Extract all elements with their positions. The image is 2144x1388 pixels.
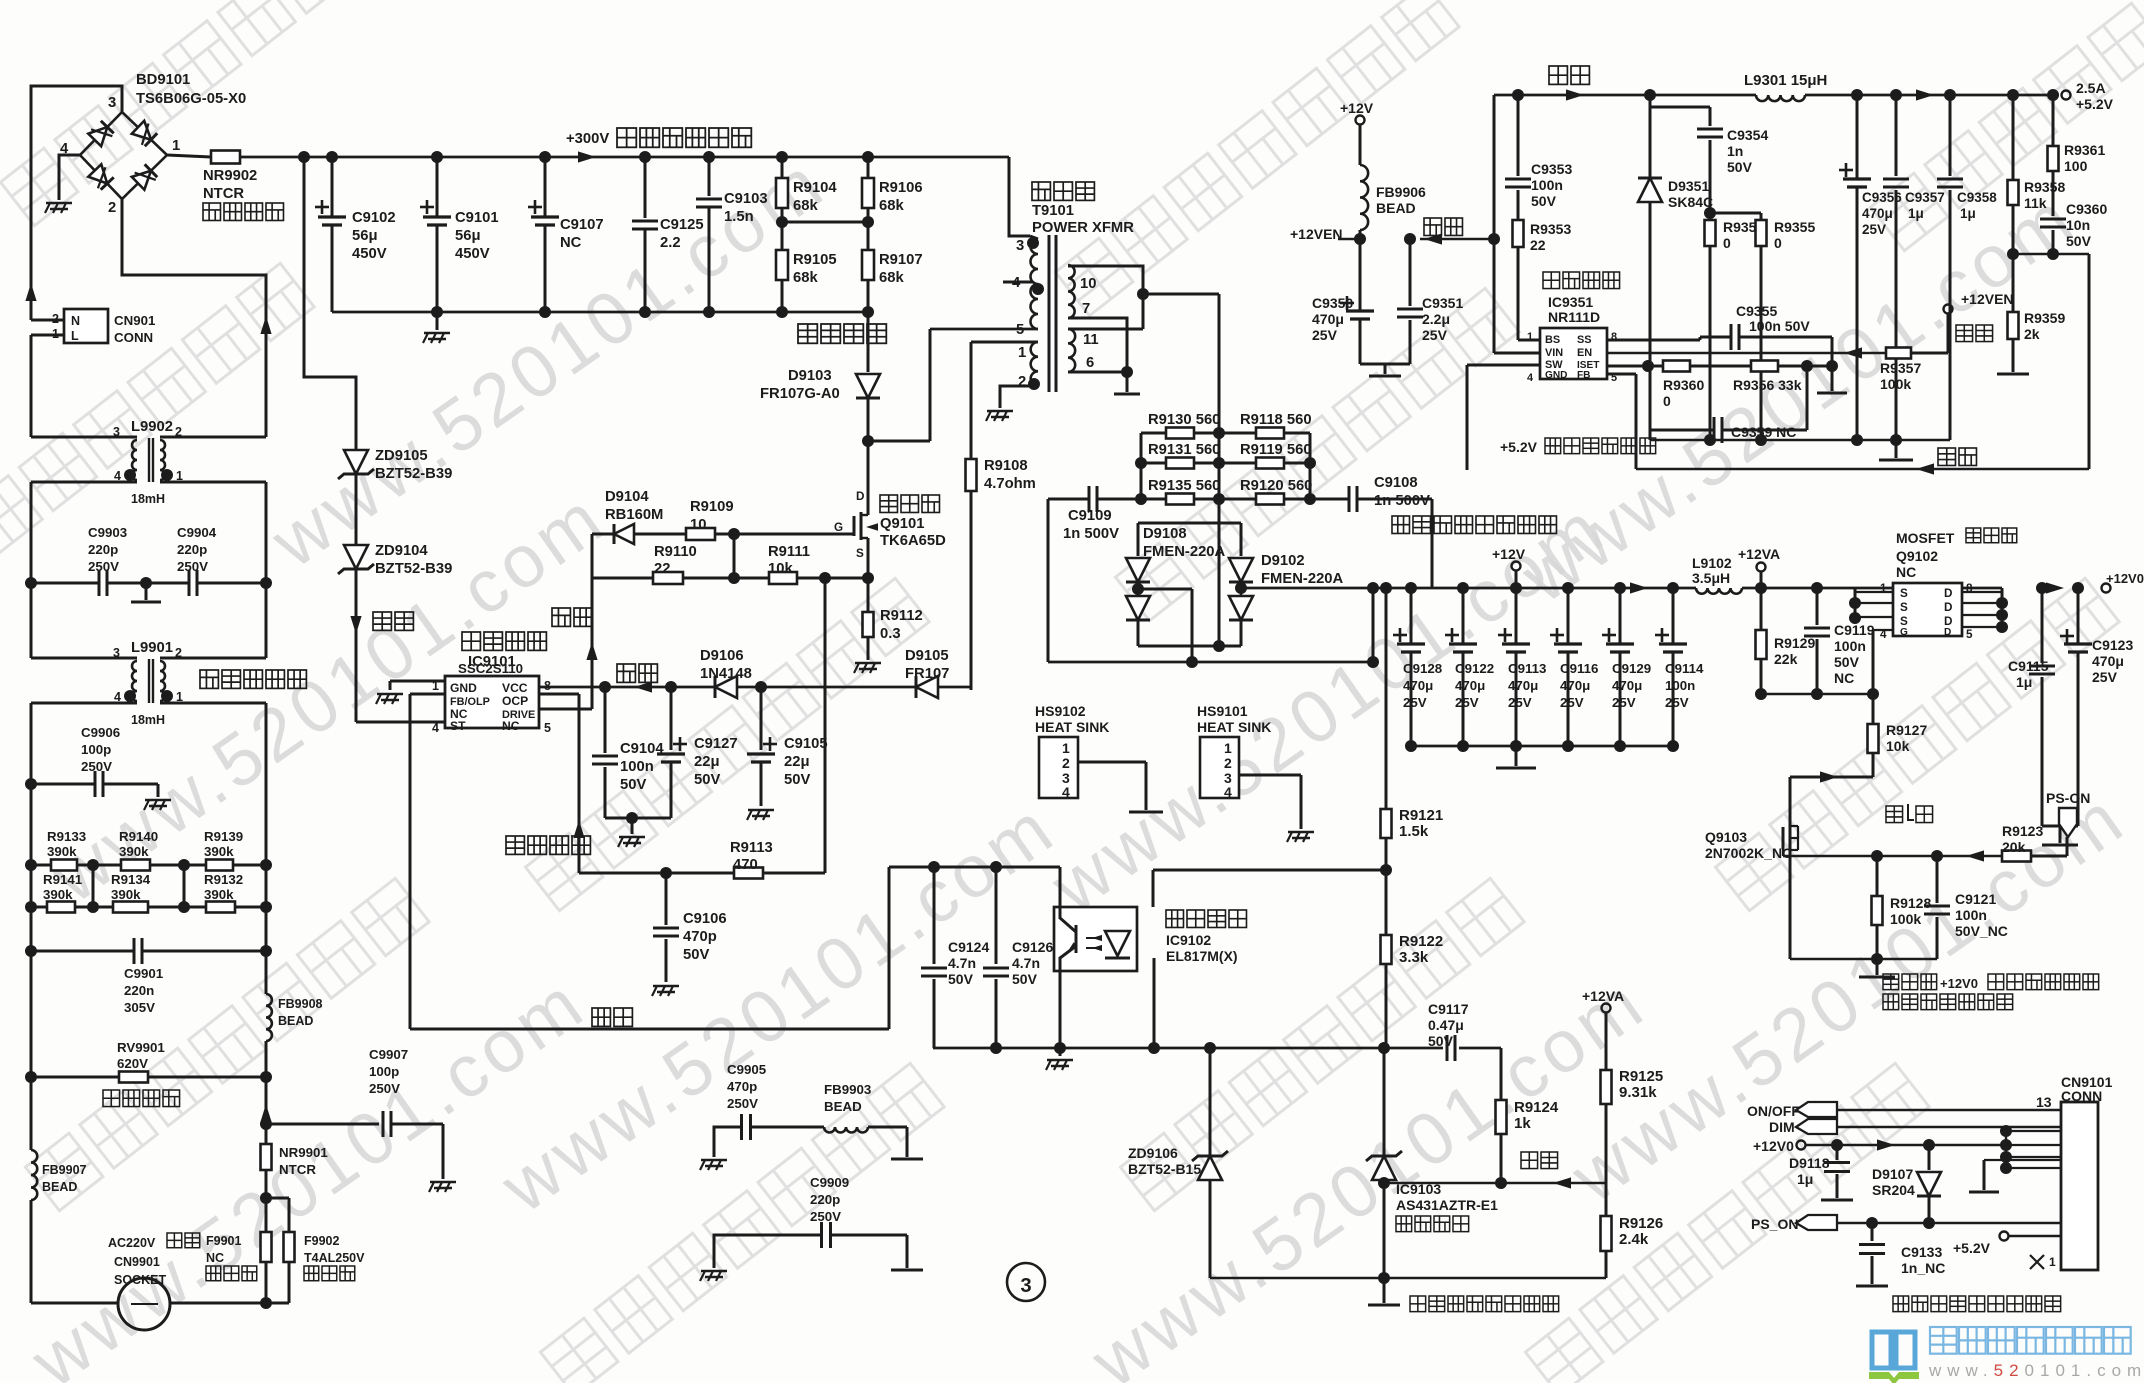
svg-text:R9133: R9133 <box>47 829 86 844</box>
svg-text:C9119: C9119 <box>1834 622 1875 638</box>
capacitor C9101 <box>420 157 499 312</box>
svg-text:2k: 2k <box>2024 326 2040 342</box>
bridge rectifier BD9101 <box>60 95 180 216</box>
svg-text:390k: 390k <box>43 887 73 902</box>
+5.2V terminal at connector <box>1953 1232 2061 1257</box>
MOSFET Q9103 2N7002K <box>1705 818 1798 959</box>
capacitor C9128 <box>1393 588 1442 746</box>
optocoupler IC9102 EL817 <box>1054 907 1137 971</box>
capacitor C9119 <box>1804 588 1875 694</box>
svg-text:D9105: D9105 <box>905 648 949 664</box>
svg-text:1N4148: 1N4148 <box>700 666 752 682</box>
ground at C9350/C9351 <box>1360 364 1410 376</box>
rectifier bottom rail <box>1048 582 1379 668</box>
ISET ground <box>1817 366 1847 393</box>
svg-text:470p: 470p <box>683 929 717 945</box>
site logo book icon <box>1869 1332 1919 1385</box>
svg-text:1.5k: 1.5k <box>1399 823 1429 840</box>
svg-text:D: D <box>856 490 864 503</box>
C9104/C9127 ground <box>605 812 671 847</box>
capacitor C9106 <box>653 873 727 982</box>
wire to IC9101 ST pin <box>356 721 445 724</box>
svg-text:BEAD: BEAD <box>824 1099 862 1114</box>
svg-text:G: G <box>834 521 843 534</box>
svg-text:13: 13 <box>2036 1094 2052 1110</box>
svg-text:HS9102: HS9102 <box>1035 703 1086 719</box>
resistor R9133 <box>31 829 93 871</box>
IC9351 VIN wire <box>1488 95 1540 353</box>
resistor R9130 <box>1141 412 1220 439</box>
svg-text:3: 3 <box>1016 238 1024 254</box>
svg-text:FB9908: FB9908 <box>278 997 323 1011</box>
no-connect X mark <box>2030 1255 2056 1269</box>
svg-text:1: 1 <box>1018 345 1026 361</box>
svg-text:100n: 100n <box>1665 678 1695 693</box>
svg-text:R9118 560: R9118 560 <box>1240 412 1312 428</box>
svg-text:4.7n: 4.7n <box>948 955 976 971</box>
IC IC9351 NR111D <box>1527 328 1617 384</box>
svg-text:IC9102: IC9102 <box>1166 932 1211 948</box>
svg-text:C9351: C9351 <box>1422 295 1463 311</box>
svg-text:BZT52-B15: BZT52-B15 <box>1128 1161 1201 1177</box>
transformer T9101 <box>930 235 1149 408</box>
IC9101 DRIVE wire 激励 <box>539 534 598 709</box>
svg-text:50V: 50V <box>948 971 974 987</box>
svg-text:C9354: C9354 <box>1727 127 1768 143</box>
svg-text:1n: 1n <box>1727 143 1743 159</box>
svg-text:PS_ON: PS_ON <box>1751 1216 1798 1232</box>
svg-text:DIM: DIM <box>1769 1119 1795 1135</box>
svg-text:HEAT SINK: HEAT SINK <box>1197 719 1271 735</box>
svg-text:FMEN-220A: FMEN-220A <box>1261 571 1344 587</box>
svg-text:1μ: 1μ <box>2016 674 2032 690</box>
svg-text:FR107: FR107 <box>905 666 949 682</box>
svg-text:2.2μ: 2.2μ <box>1422 311 1450 327</box>
svg-text:C9117: C9117 <box>1428 1001 1469 1017</box>
bead FB9903 <box>824 1082 923 1159</box>
svg-text:R9110: R9110 <box>654 544 697 560</box>
svg-text:C9909: C9909 <box>810 1175 849 1190</box>
svg-text:R9111: R9111 <box>768 544 810 560</box>
svg-text:10k: 10k <box>1886 738 1910 754</box>
capacitor C9905 filter <box>700 1062 824 1170</box>
opto top bus <box>889 861 1060 907</box>
svg-text:C9115: C9115 <box>2008 658 2049 674</box>
svg-text:C9127: C9127 <box>694 736 738 752</box>
IC9351 SS wire + capacitor C9355 <box>1607 303 1832 366</box>
svg-text:470μ: 470μ <box>1455 678 1485 693</box>
svg-text:R9139: R9139 <box>204 829 243 844</box>
resistor R9353 <box>1513 220 1572 340</box>
svg-text:S: S <box>1900 601 1908 614</box>
svg-text:C9121: C9121 <box>1955 891 1996 907</box>
svg-text:0: 0 <box>1663 393 1671 409</box>
capacitor C9351 <box>1397 233 1463 364</box>
svg-text:R9126: R9126 <box>1619 1215 1663 1232</box>
svg-text:+5.2V: +5.2V <box>2076 96 2114 112</box>
svg-text:C9126: C9126 <box>1012 939 1053 955</box>
IC9351 ISET row R9360 R9356 <box>1607 360 1838 409</box>
svg-text:EL817M(X): EL817M(X) <box>1166 948 1238 964</box>
ground at filter rail <box>423 312 450 343</box>
svg-text:R9355: R9355 <box>1774 219 1815 235</box>
svg-text:C9114: C9114 <box>1665 661 1704 676</box>
cap bank bottom rail <box>1405 740 1679 752</box>
svg-text:HS9101: HS9101 <box>1197 703 1248 719</box>
label 开关管 Q9101 TK6A65D <box>880 495 946 549</box>
svg-text:R9141: R9141 <box>43 872 83 887</box>
svg-text:R9353: R9353 <box>1530 221 1571 237</box>
svg-text:6: 6 <box>1086 355 1094 371</box>
label 次级整流滤波电路 <box>1392 516 1409 533</box>
svg-text:470μ: 470μ <box>2092 653 2124 669</box>
snubber return wire <box>862 329 930 447</box>
ground at C9106 <box>653 985 679 988</box>
capacitor C9357 <box>1883 95 1945 446</box>
capacitor C9354 <box>1650 107 1768 213</box>
svg-text:2.2: 2.2 <box>660 235 681 251</box>
+12VEN wire into supply node <box>1290 226 1360 242</box>
svg-text:R9119 560: R9119 560 <box>1240 442 1312 458</box>
svg-text:50V: 50V <box>1834 654 1860 670</box>
svg-text:NC: NC <box>206 1251 224 1265</box>
label 稳压光耦 IC9102 EL817M(X) <box>1166 910 1246 964</box>
resistor R9126 <box>1601 1183 1664 1278</box>
circled 3 page number <box>1007 1263 1045 1301</box>
svg-text:C9122: C9122 <box>1455 661 1494 676</box>
resistor R9131 <box>1141 442 1220 469</box>
svg-text:+12V: +12V <box>1492 546 1526 562</box>
resistor R9109 <box>634 499 854 540</box>
svg-text:C9124: C9124 <box>948 939 989 955</box>
svg-text:68k: 68k <box>793 270 818 286</box>
capacitor C9115 <box>2008 582 2055 826</box>
capacitor C9360 <box>2040 201 2107 254</box>
svg-text:2: 2 <box>1062 755 1070 771</box>
svg-text:100: 100 <box>2064 158 2088 174</box>
capacitor C9358 <box>1937 95 1997 440</box>
svg-text:+12VEN: +12VEN <box>1290 226 1343 242</box>
svg-text:T4AL250V: T4AL250V <box>304 1251 365 1265</box>
svg-text:R9120 560: R9120 560 <box>1240 478 1312 494</box>
svg-text:C9108: C9108 <box>1374 475 1418 491</box>
svg-text:SS: SS <box>1577 334 1592 346</box>
svg-text:0: 0 <box>1774 235 1782 251</box>
+12VA terminal <box>1738 546 1780 588</box>
svg-text:100p: 100p <box>81 742 111 757</box>
svg-text:R9135 560: R9135 560 <box>1148 478 1220 494</box>
ground at opto emitter <box>1046 971 1073 1070</box>
svg-text:NC: NC <box>502 719 520 733</box>
wire bridge pin3 to CN901 N <box>31 86 122 320</box>
svg-text:1.5n: 1.5n <box>724 209 754 225</box>
resistor R9358 <box>2008 95 2066 254</box>
svg-text:25V: 25V <box>1560 695 1584 710</box>
diode D9351 SK84C <box>1638 95 1713 440</box>
svg-text:R9128: R9128 <box>1890 895 1931 911</box>
svg-text:250V: 250V <box>810 1209 841 1224</box>
ground at R9359 <box>1997 373 2029 376</box>
resistor R9124 <box>1496 1048 1559 1183</box>
svg-text:POWER XFMR: POWER XFMR <box>1032 220 1134 236</box>
label 市电整流滤波 <box>617 128 636 147</box>
svg-text:IC9351: IC9351 <box>1548 294 1593 310</box>
IC IC9101 SSC2S110 <box>432 676 551 735</box>
svg-text:22: 22 <box>1530 237 1546 253</box>
svg-text:C9105: C9105 <box>784 736 828 752</box>
capacitor C9105 <box>747 687 828 806</box>
capacitor C9353 <box>1505 95 1572 220</box>
svg-text:L9301 15μH: L9301 15μH <box>1744 72 1827 89</box>
svg-text:C9106: C9106 <box>683 911 727 927</box>
svg-text:+12VA: +12VA <box>1738 546 1780 562</box>
svg-text:390k: 390k <box>47 844 77 859</box>
svg-text:11: 11 <box>1083 332 1099 348</box>
svg-text:C9357: C9357 <box>1905 190 1945 205</box>
svg-text:1n 500V: 1n 500V <box>1374 493 1430 509</box>
label 变压器 T9101 POWER XFMR <box>1032 182 1134 236</box>
PS-ON connector pin <box>2046 790 2090 837</box>
svg-text:R9140: R9140 <box>119 829 158 844</box>
svg-text:2: 2 <box>1018 374 1026 390</box>
svg-text:RV9901: RV9901 <box>117 1040 165 1055</box>
svg-text:D: D <box>1944 627 1951 638</box>
svg-text:390k: 390k <box>204 887 234 902</box>
svg-text:56μ: 56μ <box>455 228 481 244</box>
svg-text:+5.2V: +5.2V <box>1500 439 1538 455</box>
svg-text:C9359 NC: C9359 NC <box>1731 424 1796 440</box>
svg-text:Q9101: Q9101 <box>880 516 924 532</box>
diode D9106 <box>700 648 752 698</box>
heat sink HS9102 <box>1035 703 1163 812</box>
resistor R9104 <box>776 157 837 222</box>
svg-text:4: 4 <box>1224 784 1232 800</box>
svg-text:2: 2 <box>1224 755 1232 771</box>
svg-text:R9356 33k: R9356 33k <box>1733 377 1802 393</box>
svg-text:305V: 305V <box>124 1000 155 1015</box>
wire bridge pin2 to L9902 pin2 <box>122 199 266 437</box>
svg-text:C9358: C9358 <box>1957 190 1997 205</box>
svg-text:D9102: D9102 <box>1261 553 1305 569</box>
svg-text:50V: 50V <box>2066 233 2092 249</box>
resistor R9123 <box>2002 823 2067 862</box>
svg-text:C9353: C9353 <box>1531 161 1572 177</box>
svg-text:20k: 20k <box>2002 839 2026 855</box>
MOSFET Q9101 switch <box>834 441 878 578</box>
svg-text:7: 7 <box>1082 301 1090 317</box>
IC9351 BS wire <box>1518 339 1540 342</box>
svg-text:L: L <box>71 329 79 343</box>
svg-text:C9355: C9355 <box>1736 303 1777 319</box>
svg-text:250V: 250V <box>727 1096 758 1111</box>
capacitor C9103 <box>696 157 768 312</box>
svg-text:NTCR: NTCR <box>203 186 244 202</box>
MOSFET block Q9102 <box>1849 582 2008 694</box>
svg-text:C9107: C9107 <box>560 217 604 233</box>
svg-text:NR9901: NR9901 <box>279 1145 328 1160</box>
svg-text:D9104: D9104 <box>605 489 649 505</box>
svg-text:470μ: 470μ <box>1312 311 1344 327</box>
switch gate row to R9123 <box>1783 850 2002 862</box>
svg-text:+12V0: +12V0 <box>1753 1138 1794 1154</box>
svg-text:C9129: C9129 <box>1612 661 1651 676</box>
svg-text:18mH: 18mH <box>131 713 165 727</box>
svg-text:AS431AZTR-E1: AS431AZTR-E1 <box>1396 1197 1498 1213</box>
+12VA sampling terminal <box>1582 988 1624 1070</box>
svg-text:L9901: L9901 <box>131 640 173 656</box>
AC socket CN9901 <box>31 1233 289 1330</box>
svg-text:NTCR: NTCR <box>279 1162 316 1177</box>
capacitor C9907 <box>369 1047 456 1192</box>
svg-text:D9351: D9351 <box>1668 178 1709 194</box>
svg-text:0.3: 0.3 <box>880 626 901 642</box>
svg-text:BEAD: BEAD <box>1376 200 1416 216</box>
label 输出 <box>1549 66 1567 84</box>
svg-text:OCP: OCP <box>502 694 528 708</box>
sampling row 取样 <box>1378 1152 1606 1189</box>
connector CN9101 <box>2036 1074 2113 1270</box>
svg-text:BZT52-B39: BZT52-B39 <box>375 561 452 577</box>
error amp IC9103 AS431 <box>1366 1048 1498 1278</box>
svg-text:+12VA: +12VA <box>1582 988 1624 1004</box>
svg-text:C9125: C9125 <box>660 217 704 233</box>
svg-text:0: 0 <box>1723 235 1731 251</box>
svg-text:R9105: R9105 <box>793 252 837 268</box>
ground at output filter <box>1879 440 1913 460</box>
svg-text:Q9103: Q9103 <box>1705 829 1747 845</box>
+12V bus <box>1241 582 2002 594</box>
heat sink HS9101 <box>1197 703 1314 842</box>
wire bridge pin4 to ground <box>59 155 80 200</box>
svg-text:NR111D: NR111D <box>1548 309 1600 325</box>
svg-text:ON/OFF: ON/OFF <box>1747 1103 1800 1119</box>
C9903/C9904 row wires <box>25 577 272 602</box>
svg-text:www.520101.com: www.520101.com <box>1928 1361 2144 1380</box>
fuse F9901 <box>206 1192 272 1303</box>
svg-text:100n: 100n <box>1834 638 1866 654</box>
svg-text:C9103: C9103 <box>724 191 768 207</box>
svg-text:ST: ST <box>450 719 466 733</box>
svg-text:ZD9105: ZD9105 <box>375 448 428 464</box>
VCC supply wire 供电 <box>539 664 971 693</box>
svg-text:2: 2 <box>108 200 116 216</box>
svg-text:2.4k: 2.4k <box>1619 1231 1649 1248</box>
supply wire 供电 to IC9351 <box>1420 218 1494 245</box>
svg-text:SK84C: SK84C <box>1668 194 1713 210</box>
svg-text:F9901: F9901 <box>206 1234 241 1248</box>
wire bus to transformer pin3 <box>1009 157 1030 236</box>
svg-text:4: 4 <box>1062 784 1070 800</box>
svg-text:C9123: C9123 <box>2092 637 2133 653</box>
resistor R9141 <box>31 872 93 913</box>
svg-text:TS6B06G-05-X0: TS6B06G-05-X0 <box>136 91 246 107</box>
DIM signal tag <box>1769 1119 2061 1135</box>
svg-text:620V: 620V <box>117 1056 148 1071</box>
svg-text:470p: 470p <box>727 1079 757 1094</box>
svg-text:25V: 25V <box>1312 327 1338 343</box>
common-mode choke L9901 <box>31 583 266 865</box>
svg-text:4: 4 <box>1012 275 1021 291</box>
ground at cap bank <box>1496 746 1536 768</box>
resistor R9134 <box>93 872 184 913</box>
svg-text:100k: 100k <box>1890 911 1921 927</box>
bead FB9908 <box>266 951 323 1077</box>
varistor RV9901 <box>25 951 272 1107</box>
+12VEN terminal <box>1944 291 2014 342</box>
svg-text:EN: EN <box>1577 347 1592 359</box>
svg-text:220n: 220n <box>124 983 154 998</box>
svg-text:GND: GND <box>450 681 477 695</box>
svg-text:100p: 100p <box>369 1064 399 1079</box>
+12V0 output terminal <box>2046 571 2144 594</box>
svg-text:22k: 22k <box>1774 651 1798 667</box>
svg-text:C9102: C9102 <box>352 210 396 226</box>
svg-text:10k: 10k <box>768 561 793 577</box>
svg-text:50V: 50V <box>1531 193 1557 209</box>
svg-text:25V: 25V <box>1403 695 1427 710</box>
svg-text:S: S <box>1900 587 1908 600</box>
label 抗干扰电路 <box>200 670 218 688</box>
label 开关机+12V0输出控制电路 <box>1883 974 2099 1010</box>
svg-text:R9108: R9108 <box>984 458 1028 474</box>
ground at R9112 <box>855 662 881 665</box>
svg-text:C9905: C9905 <box>727 1062 767 1077</box>
svg-text:25V: 25V <box>1612 695 1636 710</box>
label MOSFET开关管 Q9102 NC <box>1896 528 2017 580</box>
svg-text:HEAT SINK: HEAT SINK <box>1035 719 1109 735</box>
resistor R9139 <box>204 829 266 871</box>
svg-text:S: S <box>856 547 864 560</box>
svg-text:R9112: R9112 <box>880 608 923 624</box>
bead FB9907 <box>31 1077 87 1303</box>
flow arrow up <box>25 283 36 301</box>
thermistor NR9901 <box>261 1124 329 1198</box>
grid column wires and dots <box>1135 427 1316 505</box>
svg-text:390k: 390k <box>111 887 141 902</box>
svg-text:R9130 560: R9130 560 <box>1148 412 1220 428</box>
svg-text:100n: 100n <box>1531 177 1563 193</box>
resistor R9135 <box>1141 478 1220 505</box>
+12V0 input wire <box>1753 1125 2061 1174</box>
resistor R9112 <box>863 578 923 660</box>
svg-text:9.31k: 9.31k <box>1619 1084 1657 1101</box>
svg-text:SR204: SR204 <box>1872 1182 1915 1198</box>
svg-text:25V: 25V <box>1422 327 1448 343</box>
resistor R9121 <box>1381 588 1444 870</box>
svg-text:CN9901: CN9901 <box>114 1255 160 1269</box>
svg-text:220p: 220p <box>88 542 118 557</box>
flow arrow up on L9902 riser <box>260 316 271 334</box>
capacitor C9117 <box>1428 1001 1469 1061</box>
IC9101 OCP over-current wire <box>506 694 590 873</box>
opto LED cathode wire <box>1153 958 1156 1048</box>
svg-text:470μ: 470μ <box>1862 206 1893 221</box>
resistor R9361 <box>2047 89 2105 216</box>
capacitor C9901 <box>25 938 272 1015</box>
capacitor C9904 <box>177 525 217 596</box>
svg-text:R9121: R9121 <box>1399 807 1443 824</box>
svg-text:1k: 1k <box>1514 1115 1531 1132</box>
svg-text:5: 5 <box>1016 322 1024 338</box>
resistor R9110 <box>592 544 769 584</box>
svg-text:50V: 50V <box>620 777 646 793</box>
svg-text:D9106: D9106 <box>700 648 744 664</box>
resistor R9355 <box>1710 213 1815 440</box>
svg-text:50V: 50V <box>784 772 810 788</box>
svg-text:R9109: R9109 <box>690 499 734 515</box>
svg-text:470μ: 470μ <box>1560 678 1590 693</box>
capacitor C9114 <box>1655 588 1704 746</box>
